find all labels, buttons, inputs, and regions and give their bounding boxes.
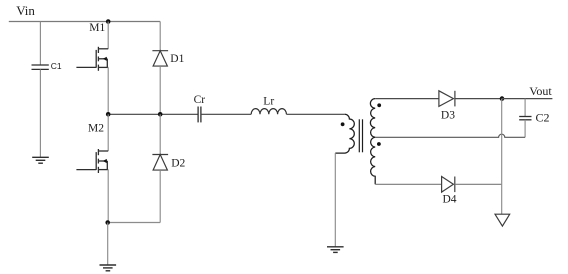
wire secondary top to D3	[375, 98, 439, 100]
wire Lr to transformer primary	[286, 113, 344, 115]
transistor M1	[76, 47, 108, 71]
wire mid rail	[108, 113, 198, 115]
capacitor Cr	[198, 107, 201, 123]
svg-text:C2: C2	[536, 111, 550, 125]
wire output to Vout	[502, 98, 552, 100]
wire primary to ground	[334, 153, 336, 247]
wire D4 to vertical	[455, 183, 502, 185]
diode D3	[439, 91, 455, 107]
ground triangle output	[495, 214, 510, 226]
svg-text:D4: D4	[443, 193, 457, 205]
wire C1 to ground	[39, 69, 41, 157]
wire M1 drain	[107, 22, 109, 49]
svg-text:C1: C1	[51, 61, 62, 71]
svg-text:Lr: Lr	[263, 96, 274, 108]
inductor Lr	[251, 109, 286, 115]
capacitor C1	[32, 65, 49, 69]
diode D4	[442, 177, 455, 193]
ground primary side	[327, 247, 344, 253]
diode D2	[152, 155, 168, 171]
secondary bottom phase dot	[377, 142, 381, 146]
wire M2 drain	[107, 114, 109, 151]
wire D3 to output node	[455, 98, 502, 100]
svg-text:D1: D1	[170, 53, 184, 65]
svg-text:D3: D3	[441, 110, 455, 122]
diode D1	[152, 51, 168, 66]
transformer T1 primary winding	[335, 114, 354, 153]
capacitor C2	[519, 117, 531, 120]
node junction bottom rail	[105, 220, 110, 225]
svg-text:Cr: Cr	[194, 94, 206, 106]
svg-text:Vout: Vout	[529, 84, 552, 98]
wire D2 bottom	[159, 170, 161, 222]
ground under M2	[100, 265, 117, 271]
node junction mid rail left	[106, 112, 111, 117]
wire M1 source to mid rail	[107, 67, 109, 114]
svg-text:Vin: Vin	[16, 3, 35, 18]
wire top rail	[9, 21, 160, 23]
wire M2 to ground	[107, 223, 109, 266]
primary phase dot	[341, 122, 345, 126]
wire D1 bottom	[159, 66, 161, 114]
svg-text:M2: M2	[88, 122, 104, 134]
wire secondary bottom to D4	[375, 183, 441, 185]
transformer core	[359, 119, 362, 152]
wire center tap with hop	[375, 134, 525, 137]
wire C2 bottom lead	[524, 120, 526, 138]
svg-text:D2: D2	[171, 157, 185, 169]
node junction output	[500, 96, 505, 101]
node junction M1 drain on rail	[106, 19, 111, 24]
wire D1 top	[159, 22, 161, 51]
transformer secondary bottom winding	[371, 137, 376, 184]
wire Cr to Lr	[201, 113, 251, 115]
wire left branch to C1	[39, 22, 41, 66]
ground under C1	[32, 157, 49, 163]
wire M2 source to bottom rail	[107, 170, 109, 223]
transistor M2	[76, 149, 108, 173]
node junction mid rail right	[158, 112, 163, 117]
wire D2 top	[159, 114, 161, 154]
transformer secondary top winding	[370, 99, 375, 138]
wire bottom rail	[108, 222, 161, 224]
wire vertical output to ground	[501, 99, 503, 215]
svg-text:M1: M1	[89, 22, 105, 34]
wire C2 top lead	[524, 99, 526, 117]
secondary top phase dot	[377, 103, 381, 107]
